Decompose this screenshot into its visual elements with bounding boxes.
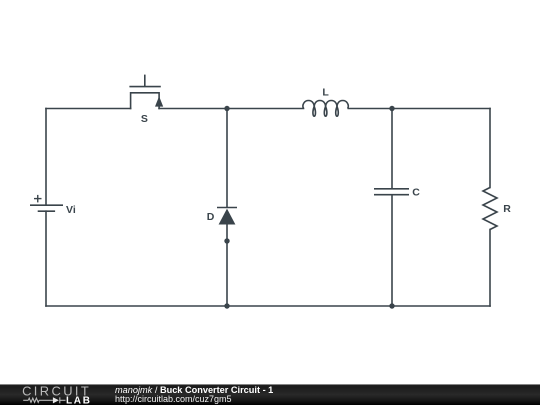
wire right vertical lower (489, 230, 491, 307)
wire bottom (46, 305, 490, 307)
plus sign (34, 195, 42, 203)
capacitor C (374, 189, 409, 195)
svg-text:R: R (503, 203, 511, 215)
svg-text:LAB: LAB (66, 395, 92, 405)
transistor S (130, 75, 163, 108)
node junction bottom-capacitor (389, 303, 394, 308)
inductor L (303, 101, 348, 117)
svg-text:S: S (141, 113, 148, 125)
wire top-right segment (348, 108, 490, 110)
node junction top-capacitor (389, 106, 394, 111)
wire top-left segment (46, 108, 131, 110)
diode D (217, 208, 237, 225)
wire left vertical upper (45, 109, 47, 205)
node junction top-diode (224, 106, 229, 111)
wire diode branch upper (226, 109, 228, 208)
footer bar (0, 384, 540, 405)
logo diode triangle (53, 397, 59, 403)
voltage source Vi (battery) (30, 205, 63, 211)
node junction below diode (224, 238, 229, 243)
logo resistor squiggle wire (23, 397, 65, 403)
svg-text:D: D (207, 211, 215, 223)
wire right vertical upper (489, 109, 491, 188)
svg-text:http://circuitlab.com/cuz7gm5: http://circuitlab.com/cuz7gm5 (115, 394, 232, 404)
node junction bottom-diode (224, 303, 229, 308)
wire capacitor branch lower (391, 195, 393, 306)
wire top-middle segment (159, 108, 303, 110)
resistor R (483, 188, 497, 230)
wire left vertical lower (45, 211, 47, 306)
svg-text:C: C (412, 187, 420, 199)
svg-text:L: L (322, 87, 329, 99)
svg-text:Vi: Vi (66, 204, 76, 216)
wire capacitor branch upper (391, 109, 393, 189)
wire diode branch lower (226, 225, 228, 307)
